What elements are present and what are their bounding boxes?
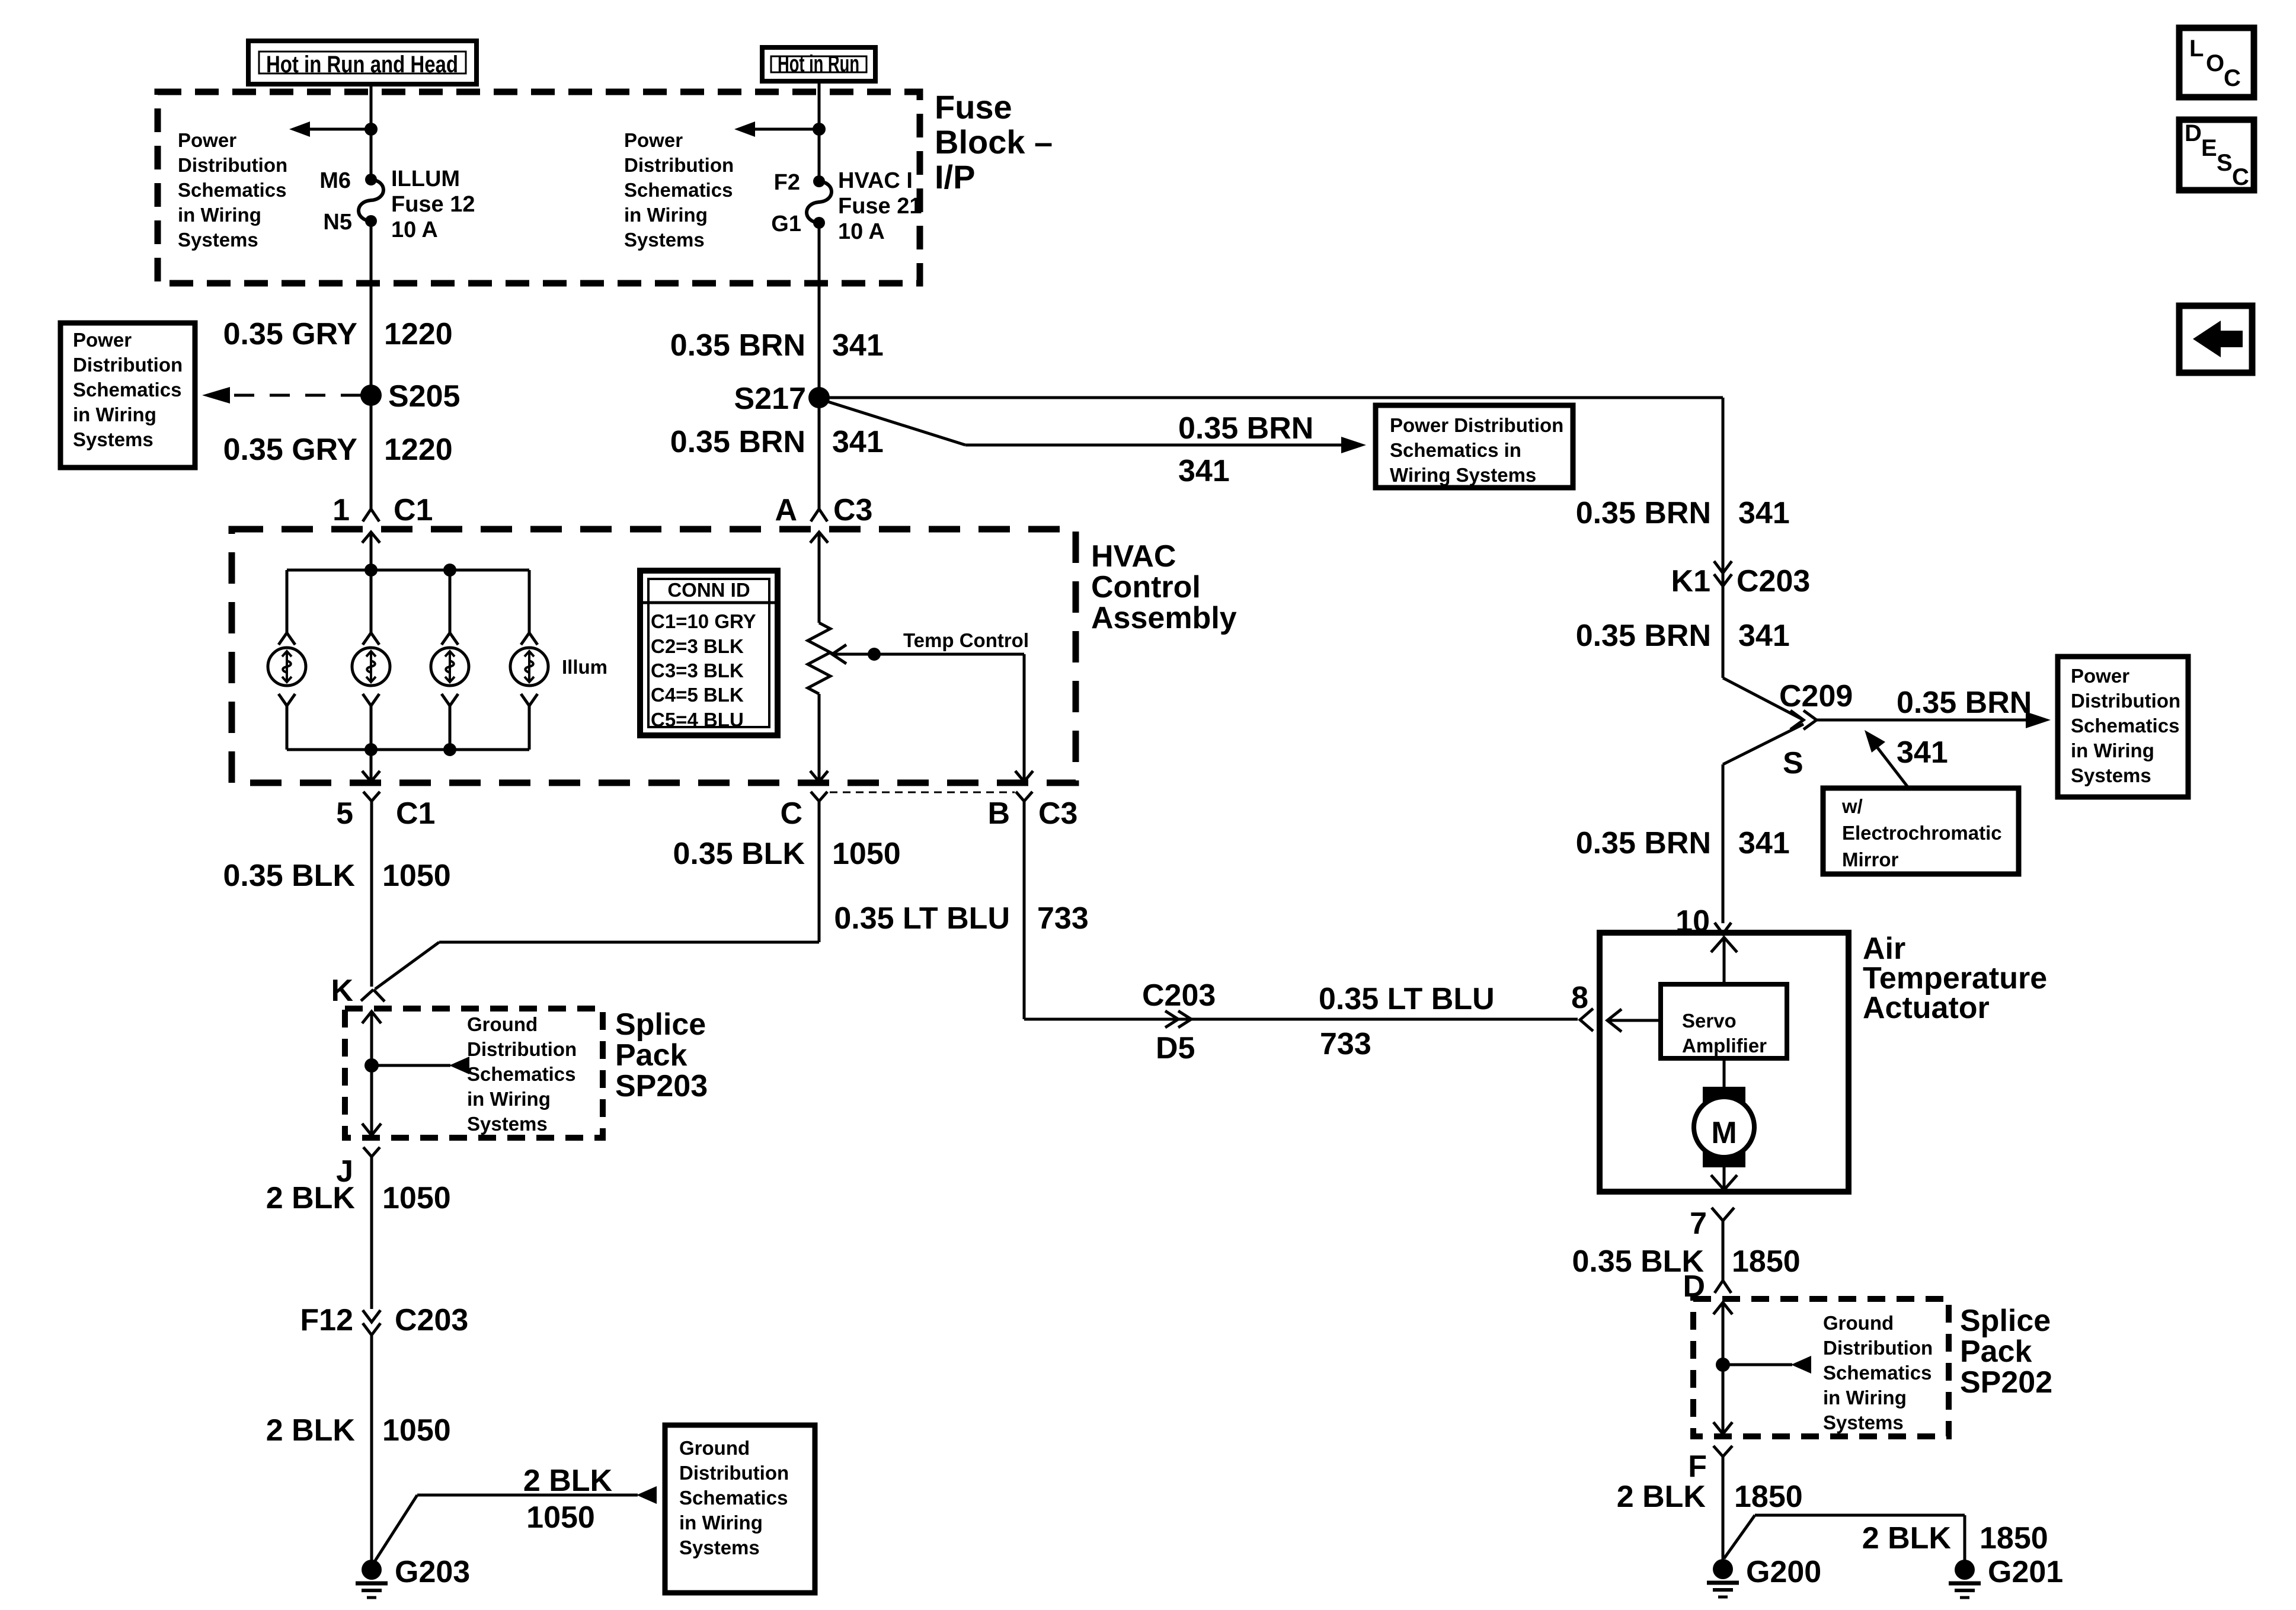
box Power Distribution Schematics in Wiring Systems (center) — [1376, 405, 1573, 488]
svg-text:341: 341 — [1738, 619, 1790, 653]
svg-text:1050: 1050 — [832, 837, 901, 871]
svg-text:1050: 1050 — [382, 859, 451, 893]
dashed arrow from S205 to Power Distribution box — [202, 387, 371, 404]
svg-text:2 BLK: 2 BLK — [1617, 1480, 1706, 1514]
wire label 0.35 BLK 1050 (center) — [673, 837, 900, 871]
svg-text:Servo: Servo — [1682, 1010, 1737, 1032]
svg-text:0.35 BRN: 0.35 BRN — [1576, 619, 1711, 653]
svg-text:Schematics: Schematics — [624, 179, 733, 201]
connector C203 pin F12 (in-line double chevron) — [300, 1303, 468, 1570]
svg-text:Ground: Ground — [1823, 1312, 1894, 1334]
connector C203 pin D5 (in-line) — [1142, 978, 1216, 1065]
exit arrow C3 pin C — [810, 771, 828, 782]
svg-text:D: D — [2185, 120, 2202, 146]
svg-text:in Wiring: in Wiring — [624, 204, 708, 226]
fuse value labels HVAC I Fuse 21 10 A — [838, 168, 922, 244]
svg-text:Temp Control: Temp Control — [903, 629, 1029, 651]
branch wire to G201 — [1724, 1515, 1965, 1570]
wire label 0.35 GRY 1220 (upper) — [223, 317, 453, 351]
DESC reference box — [2179, 120, 2254, 190]
svg-text:Systems: Systems — [467, 1113, 548, 1135]
svg-text:2 BLK: 2 BLK — [266, 1413, 356, 1448]
node bottom bus-right — [443, 743, 456, 756]
arrow to Power Distribution (right fuse) — [734, 121, 819, 137]
svg-text:C203: C203 — [1142, 978, 1216, 1013]
svg-text:341: 341 — [1897, 735, 1948, 770]
svg-text:HVAC: HVAC — [1091, 539, 1176, 574]
connector C3 pin B — [987, 792, 1077, 1018]
svg-text:Electrochromatic: Electrochromatic — [1842, 822, 2002, 844]
wire label 2 BLK 1850 (branch) — [1862, 1521, 2048, 1555]
svg-text:F2: F2 — [774, 170, 800, 195]
connector C203 pin K1 (in-line double chevron) — [1671, 561, 1811, 598]
lamp bottom bus wire — [287, 748, 529, 751]
wire C209 down to actuator — [1723, 724, 1803, 923]
svg-text:C3=3 BLK: C3=3 BLK — [651, 660, 744, 681]
fuse value labels ILLUM Fuse 12 10 A — [391, 167, 475, 242]
svg-text:1050: 1050 — [526, 1500, 595, 1535]
label Fuse Block I/P — [935, 88, 1053, 196]
ground G200 — [1707, 1555, 1821, 1597]
wire label 0.35 BLK 1050 (left) — [223, 859, 450, 893]
connector pin D — [1683, 1269, 1731, 1304]
svg-text:in Wiring: in Wiring — [679, 1512, 763, 1534]
svg-text:C3: C3 — [1038, 796, 1077, 831]
svg-text:in Wiring: in Wiring — [2071, 740, 2154, 761]
wire label 0.35 BRN 341 (below K1) — [1576, 619, 1790, 653]
wire label 2 BLK 1050 (lower) — [266, 1413, 451, 1448]
svg-text:Block –: Block – — [935, 123, 1053, 161]
svg-text:in Wiring: in Wiring — [1823, 1387, 1907, 1409]
svg-text:733: 733 — [1320, 1027, 1371, 1061]
connector C209 pin S (double chevron) — [1779, 679, 1853, 780]
label HVAC Control Assembly — [1091, 539, 1237, 635]
svg-text:C: C — [780, 796, 802, 831]
text Ground Distribution Schematics in Wiring Systems (SP202) — [1823, 1312, 1933, 1433]
splice node SP203 — [364, 1058, 379, 1073]
arrow to Power Distribution (left fuse) — [289, 121, 371, 137]
svg-text:1050: 1050 — [382, 1181, 451, 1215]
svg-text:341: 341 — [832, 425, 884, 459]
wire motor to pin 7 with arrow — [1711, 1167, 1737, 1190]
wire label 2 BLK 1850 (left) — [1617, 1480, 1803, 1514]
svg-text:7: 7 — [1690, 1206, 1707, 1241]
entry arrow into SP203 — [362, 1012, 381, 1065]
internal arrow servo to pin 8 — [1607, 1009, 1661, 1032]
temp control potentiometer — [808, 623, 830, 780]
connector pin 8 — [1571, 981, 1593, 1031]
svg-text:Actuator: Actuator — [1863, 991, 1990, 1025]
svg-text:F: F — [1688, 1449, 1707, 1484]
exit arrow C1 pin 5 — [362, 771, 380, 782]
svg-text:Fuse: Fuse — [935, 88, 1012, 126]
svg-text:Schematics: Schematics — [73, 379, 181, 401]
splice pack SP202 dashed outline — [1693, 1299, 1949, 1436]
svg-text:Splice: Splice — [615, 1007, 706, 1042]
splice pack SP203 dashed outline — [345, 1009, 603, 1138]
svg-text:C1: C1 — [394, 493, 433, 527]
node bus-left — [364, 564, 378, 577]
svg-text:Pack: Pack — [1960, 1334, 2032, 1369]
svg-text:A: A — [775, 493, 797, 527]
svg-text:Assembly: Assembly — [1091, 601, 1237, 635]
box Power Distribution Schematics in Wiring Systems (far left) — [60, 323, 195, 468]
connector pin J — [336, 1147, 380, 1309]
potentiometer wiper arrow — [832, 645, 1024, 780]
svg-text:G200: G200 — [1746, 1555, 1821, 1589]
svg-text:Splice: Splice — [1960, 1304, 2051, 1338]
node bus-right — [443, 564, 456, 577]
svg-text:in Wiring: in Wiring — [73, 404, 156, 425]
HVAC Control Assembly dashed outline — [232, 529, 1076, 783]
label Splice Pack SP202 — [1960, 1304, 2052, 1400]
svg-text:C203: C203 — [395, 1303, 468, 1337]
svg-text:F12: F12 — [300, 1303, 353, 1337]
wire to Power Distribution arrow — [965, 437, 1366, 453]
svg-text:Schematics: Schematics — [679, 1487, 788, 1509]
entry arrow into SP202 — [1713, 1302, 1732, 1365]
svg-text:S: S — [1783, 746, 1803, 780]
internal arrow to Ground Distribution text (SP202) — [1723, 1356, 1811, 1374]
svg-text:0.35 LT BLU: 0.35 LT BLU — [834, 901, 1010, 936]
branch wire G203 to Ground Distribution box — [373, 1486, 657, 1564]
splice S217 — [808, 387, 830, 408]
connector pin F — [1688, 1446, 1732, 1569]
exit wire and arrow from SP202 — [1713, 1365, 1732, 1434]
internal arrow to Ground Distribution text — [372, 1057, 469, 1074]
svg-text:1050: 1050 — [382, 1413, 451, 1448]
Air Temperature Actuator box — [1600, 933, 1849, 1192]
svg-text:Schematics in: Schematics in — [1390, 439, 1521, 461]
svg-text:N5: N5 — [323, 210, 352, 235]
svg-text:SP202: SP202 — [1960, 1365, 2052, 1400]
wire LT BLU run to actuator — [1024, 1018, 1578, 1019]
svg-text:C4=5 BLK: C4=5 BLK — [651, 684, 744, 706]
ground G201 — [1949, 1555, 2063, 1598]
svg-text:0.35 LT BLU: 0.35 LT BLU — [1319, 982, 1495, 1016]
svg-text:Ground: Ground — [679, 1437, 750, 1459]
wire G1 to S217 — [818, 223, 821, 398]
svg-text:0.35 BRN: 0.35 BRN — [670, 425, 805, 459]
svg-text:C1=10 GRY: C1=10 GRY — [651, 610, 756, 632]
svg-text:Control: Control — [1091, 570, 1201, 604]
junction dot right feed — [813, 123, 826, 136]
svg-text:733: 733 — [1037, 901, 1089, 936]
svg-text:341: 341 — [1738, 496, 1790, 530]
back arrow box — [2179, 306, 2252, 373]
box Ground Distribution Schematics in Wiring Systems (bottom left) — [665, 1425, 815, 1593]
svg-text:D5: D5 — [1156, 1031, 1195, 1065]
svg-text:Fuse 12: Fuse 12 — [391, 192, 475, 217]
svg-text:Distribution: Distribution — [73, 354, 183, 376]
connector pin 7 — [1690, 1206, 1734, 1280]
svg-text:Power Distribution: Power Distribution — [1390, 414, 1563, 436]
svg-text:C3: C3 — [833, 493, 872, 527]
annotation arrow w/ Electrochromatic Mirror — [1865, 730, 1910, 789]
svg-text:Systems: Systems — [178, 229, 258, 251]
svg-text:S205: S205 — [388, 379, 460, 414]
svg-text:G203: G203 — [395, 1555, 470, 1589]
svg-text:0.35 BRN: 0.35 BRN — [670, 328, 805, 363]
svg-text:Systems: Systems — [679, 1537, 760, 1558]
label Air Temperature Actuator — [1863, 932, 2047, 1025]
svg-text:in Wiring: in Wiring — [178, 204, 261, 226]
svg-text:Illum: Illum — [562, 656, 607, 678]
svg-text:Distribution: Distribution — [178, 154, 287, 176]
svg-text:G1: G1 — [771, 212, 801, 236]
svg-text:2 BLK: 2 BLK — [523, 1464, 613, 1498]
svg-text:341: 341 — [832, 328, 884, 363]
svg-text:Distribution: Distribution — [679, 1462, 789, 1484]
svg-text:C: C — [2232, 164, 2249, 190]
box Power Distribution Schematics in Wiring Systems (right) — [2058, 657, 2188, 797]
svg-text:Schematics: Schematics — [1823, 1362, 1932, 1384]
svg-text:w/: w/ — [1841, 795, 1863, 817]
connector pin 10 — [1675, 904, 1731, 939]
connector body dashed link C to B — [830, 792, 1015, 793]
svg-text:0.35 BLK: 0.35 BLK — [673, 837, 805, 871]
svg-text:C1: C1 — [396, 796, 435, 831]
wire servo to motor — [1723, 1058, 1726, 1087]
wire label 0.35 LT BLU 733 (horizontal run) — [1319, 982, 1495, 1061]
wire N5 to S205 — [370, 221, 373, 395]
svg-text:10 A: 10 A — [838, 219, 885, 244]
illumination lamp L2 — [352, 570, 390, 750]
svg-text:S: S — [2217, 150, 2233, 176]
fuse F12 (ILLUM Fuse 12) — [359, 174, 383, 227]
lamp feed wire from bus to exit — [370, 750, 373, 780]
svg-text:2 BLK: 2 BLK — [1862, 1521, 1952, 1555]
wire from Hot in Run and Head to fuse M6 — [370, 84, 373, 180]
connector pin C — [780, 792, 827, 942]
svg-text:Wiring Systems: Wiring Systems — [1390, 464, 1536, 486]
svg-text:C209: C209 — [1779, 679, 1853, 713]
wire S217 to connector C3 pin A — [818, 398, 821, 509]
header box "Hot in Run and Head" — [248, 41, 477, 84]
svg-text:Ground: Ground — [467, 1013, 538, 1035]
text Power Distribution Schematics in Wiring Systems (right in fuse block) — [624, 129, 734, 251]
svg-text:SP203: SP203 — [615, 1069, 708, 1103]
splice node SP202 — [1716, 1358, 1730, 1372]
svg-text:Distribution: Distribution — [2071, 690, 2180, 712]
svg-text:Schematics: Schematics — [467, 1063, 575, 1085]
svg-text:Power: Power — [178, 129, 236, 151]
svg-text:M: M — [1711, 1116, 1737, 1150]
svg-text:1: 1 — [332, 493, 350, 527]
svg-text:Power: Power — [624, 129, 683, 151]
LOC reference box — [2179, 28, 2254, 97]
connector C1 pin 5 — [336, 792, 435, 987]
svg-text:M6: M6 — [319, 168, 351, 193]
splice S205 — [360, 385, 382, 406]
svg-text:L: L — [2189, 36, 2204, 62]
connector K — [331, 974, 385, 1008]
svg-text:HVAC I: HVAC I — [838, 168, 913, 193]
svg-text:10 A: 10 A — [391, 217, 438, 242]
exit wire and arrow from SP203 — [362, 1065, 381, 1135]
svg-text:CONN ID: CONN ID — [667, 579, 750, 601]
connector C3 pin A — [775, 493, 872, 623]
svg-text:Fuse 21: Fuse 21 — [838, 194, 922, 219]
svg-text:0.35 BLK: 0.35 BLK — [223, 859, 355, 893]
wire label 0.35 BRN 341 (below S217) — [670, 425, 884, 459]
wire S217 diagonal branch — [823, 400, 965, 445]
label Splice Pack SP203 — [615, 1007, 708, 1103]
lamp top bus wire — [287, 569, 529, 572]
svg-text:341: 341 — [1178, 454, 1230, 488]
wire S217 east run — [819, 396, 1723, 399]
svg-text:Systems: Systems — [2071, 764, 2151, 786]
svg-text:Systems: Systems — [73, 428, 154, 450]
exit arrow C3 pin B — [1015, 771, 1033, 782]
fuse F21 (HVAC I Fuse 21) — [807, 175, 832, 229]
svg-text:K: K — [331, 974, 353, 1008]
svg-text:Pack: Pack — [615, 1038, 687, 1073]
svg-text:8: 8 — [1571, 981, 1588, 1015]
svg-text:Distribution: Distribution — [1823, 1337, 1933, 1359]
wire BRN vertical run (right) — [1722, 398, 1725, 678]
svg-text:0.35 GRY: 0.35 GRY — [223, 433, 357, 467]
fuse block dashed outline — [158, 92, 920, 283]
box w/ Electrochromatic Mirror — [1823, 788, 2019, 874]
node bottom bus-left — [364, 743, 378, 756]
svg-text:Mirror: Mirror — [1842, 849, 1899, 870]
wire S205 to connector C1 pin 1 — [370, 395, 373, 509]
svg-text:0.35 BRN: 0.35 BRN — [1576, 496, 1711, 530]
wire label 0.35 BRN 341 (above K1) — [1576, 496, 1790, 530]
svg-text:1850: 1850 — [1980, 1521, 2048, 1555]
svg-text:B: B — [987, 796, 1010, 831]
svg-text:E: E — [2201, 135, 2217, 161]
illumination lamp L1 — [268, 570, 306, 750]
svg-text:Schematics: Schematics — [2071, 715, 2179, 737]
svg-text:5: 5 — [336, 796, 353, 831]
wire label 0.35 BRN 341 (upper left run) — [670, 328, 884, 363]
wire label 0.35 BRN 341 (branch) — [1178, 411, 1313, 488]
wire diagonal to C209 — [1723, 678, 1803, 720]
svg-text:Distribution: Distribution — [624, 154, 734, 176]
svg-text:Schematics: Schematics — [178, 179, 286, 201]
svg-text:1220: 1220 — [384, 433, 453, 467]
svg-text:C: C — [2224, 65, 2241, 91]
svg-text:C203: C203 — [1737, 564, 1810, 598]
svg-text:0.35 BRN: 0.35 BRN — [1178, 411, 1313, 446]
illumination lamp L3 — [431, 570, 469, 750]
svg-text:0.35 BRN: 0.35 BRN — [1576, 826, 1711, 860]
svg-text:Systems: Systems — [1823, 1411, 1904, 1433]
wire C209 to Power Distribution arrow — [1817, 712, 2051, 728]
svg-text:S217: S217 — [734, 382, 806, 416]
wire C run to splice pack — [375, 942, 819, 989]
ground G203 — [356, 1555, 470, 1598]
svg-text:K1: K1 — [1671, 564, 1710, 598]
svg-text:0.35 GRY: 0.35 GRY — [223, 317, 357, 351]
svg-text:C5=4 BLU: C5=4 BLU — [651, 709, 744, 731]
wire label 0.35 GRY 1220 (lower) — [223, 433, 453, 467]
svg-text:Distribution: Distribution — [467, 1038, 577, 1060]
motor M — [1694, 1087, 1754, 1167]
svg-text:G201: G201 — [1988, 1555, 2063, 1589]
svg-text:Amplifier: Amplifier — [1682, 1035, 1767, 1057]
wire label 0.35 BRN 341 (to actuator) — [1576, 826, 1790, 860]
svg-text:ILLUM: ILLUM — [391, 167, 460, 191]
Servo Amplifier box — [1661, 984, 1787, 1058]
svg-text:Hot in Run and Head: Hot in Run and Head — [266, 52, 458, 78]
wire from Hot in Run to fuse F2 — [818, 81, 821, 181]
text Ground Distribution Schematics in Wiring Systems (SP203) — [467, 1013, 577, 1135]
svg-text:341: 341 — [1738, 826, 1790, 860]
wire label 0.35 LT BLU 733 — [834, 901, 1088, 936]
junction dot left feed — [364, 123, 378, 136]
svg-text:1850: 1850 — [1734, 1480, 1803, 1514]
svg-text:0.35 BRN: 0.35 BRN — [1897, 686, 2032, 720]
svg-text:I/P: I/P — [935, 158, 975, 196]
illumination lamp L4 — [510, 570, 548, 750]
svg-text:2 BLK: 2 BLK — [266, 1181, 356, 1215]
wire label 2 BLK 1050 (upper) — [266, 1181, 451, 1215]
svg-text:Power: Power — [73, 329, 132, 351]
svg-text:Hot in Run: Hot in Run — [778, 51, 859, 77]
connector C1 pin 1 — [332, 493, 433, 570]
svg-text:1850: 1850 — [1732, 1244, 1801, 1279]
svg-text:1220: 1220 — [384, 317, 453, 351]
text Power Distribution Schematics in Wiring Systems (left in fuse block) — [178, 129, 287, 251]
CONN ID table — [640, 571, 778, 735]
svg-text:Power: Power — [2071, 665, 2129, 687]
svg-text:C2=3 BLK: C2=3 BLK — [651, 635, 744, 657]
wire label 0.35 BRN 341 (C209 branch) — [1897, 686, 2032, 770]
wire label 2 BLK 1050 (branch) — [523, 1464, 613, 1535]
svg-text:O: O — [2206, 50, 2224, 76]
svg-text:in Wiring: in Wiring — [467, 1088, 551, 1110]
internal arrow up to pin 10 — [1711, 937, 1737, 984]
wire label 0.35 BLK 1850 — [1572, 1244, 1800, 1279]
svg-text:Systems: Systems — [624, 229, 705, 251]
header box "Hot in Run" — [762, 47, 875, 81]
